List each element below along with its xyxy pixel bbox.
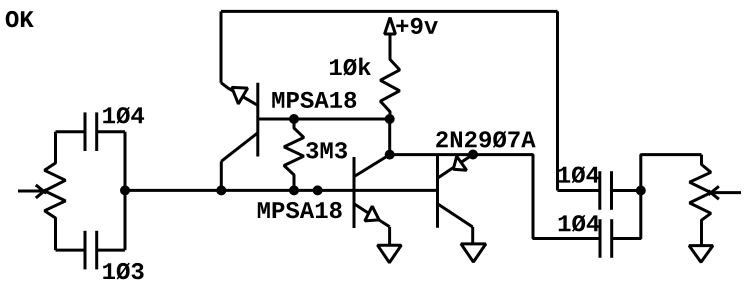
node dot 3M3 top junction [289,114,299,124]
resistor 10k [380,36,399,120]
node dot base net [313,185,323,195]
label OK [6,11,34,27]
wire Q2 emitter to ground [388,227,391,245]
resistor R1 variable (left) [45,132,66,250]
capacitor C4 104 (right bottom) [600,219,612,258]
wire cap C4 up to caps junction [612,191,641,239]
wire input arrow (left) [18,185,46,198]
node dot Q2 collector junction [385,150,395,160]
node dot 3M3 bottom junction [289,185,299,195]
capacitor C1 104 (left top) [56,112,126,151]
node dot caps junction [636,186,646,196]
ground below Q3 [461,244,486,262]
node dot Q1 collector junction [216,185,226,195]
power +9v symbol [385,18,396,34]
ground below R3 [689,246,713,263]
node dot 10k bottom junction [385,114,395,124]
wire caps junction up and over to R3 [641,155,702,191]
label 10k [330,58,371,76]
label Q2 MPSA18 [258,202,342,218]
wire rail down to Q1 emitter [220,11,223,82]
wire Q3 collector to ground [471,227,474,244]
label 3M3 [306,142,347,158]
wire cap C3 to node [612,189,641,192]
wire Q1 base to 10k node [258,118,390,121]
label C3 104 [558,166,599,183]
wire rail side to cap C3 [558,189,600,192]
label C2 103 [103,263,143,280]
wire left network right rail [124,132,127,250]
capacitor C2 103 (left bottom) [56,231,126,270]
transistor Q1 MPSA18 (upper left) [221,83,258,162]
resistor 3M3 [284,119,304,190]
capacitor C3 104 (right top) [600,171,612,210]
wire 10k node down to collector node [388,119,391,155]
transistor Q2 MPSA18 (lower middle) [354,155,390,228]
resistor R3 variable (right) [690,155,711,245]
ground below Q2 [378,245,402,262]
wire main base net [125,189,438,192]
node dot left network junction [120,185,130,195]
label +9v [396,18,438,34]
node dot Q3 emitter junction [468,150,478,160]
arrow into R3 [708,186,741,199]
label C1 104 [103,107,144,124]
wire top +9V rail [221,10,558,13]
label Q1 MPSA18 [272,92,356,108]
wire Q3 emitter net to bottom cap [390,155,600,239]
label Q3 2N2907A [436,131,535,148]
wire rail down right side [556,11,559,190]
wire Q1 collector down [220,161,223,190]
label C4 104 [559,215,600,232]
transistor Q3 2N2907A [438,154,474,227]
